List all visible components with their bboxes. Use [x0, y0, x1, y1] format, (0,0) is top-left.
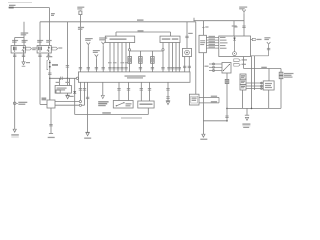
harness connector symbol x=103.2 [101, 42, 105, 46]
box: engine control module (ECM) [78, 72, 190, 82]
connector symbol above x=268.6 [264, 37, 270, 50]
wire: mid connector to ECM [95, 58, 98, 72]
label block under arrow [98, 101, 108, 106]
wire: ECM out x=80.4 to connector circle [79, 82, 82, 100]
wire: fuse box output 6 via junction circle [128, 43, 130, 72]
harness connector symbol x=88.3 [87, 42, 91, 46]
fuse No.13 label [77, 7, 84, 10]
faint label below bus [121, 117, 142, 118]
connector pair on x=50 wire [47, 60, 58, 71]
label above connector pair [46, 56, 52, 57]
wire: relay 2 contact output (x=48.6..50) [48, 53, 50, 60]
wire: fuse box output 4 to ECM [120, 43, 123, 72]
junction dot x=227 on bus [226, 108, 228, 110]
ground arrow x=203.4 [200, 134, 207, 140]
label above connector x=103.2 [99, 37, 107, 40]
box: A/C compressor clutch [263, 81, 274, 90]
wire: drop to A/C box [268, 69, 270, 81]
wire: ECM out x=102.8 to sensor arrow [101, 82, 104, 98]
label: wire color on relay 1 drop [21, 32, 29, 35]
junction: relay2 wire tees into ECM feed line [49, 78, 51, 80]
label box on x=227 wire [225, 79, 229, 83]
T2 output pins to control unit [206, 37, 218, 48]
wire: drops into diode box [60, 78, 70, 85]
wire: ECM ground x=168 [166, 82, 169, 101]
label: wire color on ignition bus [137, 19, 144, 20]
ground arrow bottom-left [11, 129, 18, 137]
box S1: pressure switch [113, 101, 133, 109]
connector ticks on x=67.4 wire [66, 66, 69, 68]
control unit pin labels [220, 37, 228, 49]
wires: ECM to sensor box S2 [140, 82, 152, 101]
bus: right bottom horizontal (y=108.4) [227, 108, 281, 110]
wire: box K bottom to ground [49, 108, 52, 133]
label: wire color below bus [78, 27, 84, 30]
ground arrow under relay 1 [22, 62, 30, 66]
diode box (fan control diode) [55, 86, 71, 94]
wire: A/C box to bus [268, 90, 270, 108]
wire: ECM ground x=87.6 [86, 82, 89, 132]
connector ticks on fuse wire [79, 67, 82, 69]
wire: bus to ground G201 [246, 108, 248, 115]
in-line connector circle on ECM feed [76, 77, 78, 79]
label left of switch [205, 66, 209, 67]
indicator bulb circle [233, 52, 237, 56]
bus: bottom horizontal (y=114.5) [75, 114, 149, 116]
wire: relay 1 output to ground G101 (long, x=14.7) [14, 53, 16, 129]
A/C box text [265, 83, 272, 88]
harness connector symbol x=96.4 [95, 54, 99, 58]
labels above ECM pins (left group) [108, 62, 128, 63]
wire: bus drop x=152.4 [151, 51, 154, 72]
wires: box B outputs to ECM [167, 43, 181, 72]
wire: bottom link from control unit (y=55.8) [251, 46, 269, 56]
wire: ECM out x=84.5 [82, 82, 87, 105]
faint header text top-left [8, 2, 32, 3]
S1 switch symbol + text [116, 102, 132, 106]
box T2: radiator fan timer [199, 35, 206, 52]
label on motor feed [188, 33, 193, 34]
box: relay box top right-middle [160, 36, 180, 42]
T inner text box [191, 96, 198, 103]
wire: battery feed horizontal bus (top left) [9, 5, 50, 9]
wire: right drop x=281 through connector [280, 69, 282, 109]
wire: T2 bottom to ground (x=203.4) [202, 53, 204, 135]
diode symbol on x=74.7 [73, 91, 76, 93]
small box above-right of K [56, 90, 60, 93]
connector stack boxes (left of A/C) [240, 74, 246, 90]
ECM label text [125, 75, 146, 78]
label on jumper bus [138, 30, 144, 31]
connector ticks below relay 1 [13, 55, 25, 57]
relay R1: radiator fan relay box [11, 46, 25, 54]
wire: box K to circle 2 [55, 104, 79, 106]
wire: control unit bottom drop x=243.6 [243, 57, 245, 69]
tag: relay 1 name (right) [26, 47, 37, 50]
wire: fuse box output 3 to ECM [116, 43, 119, 72]
ground bar bottom x=87.6 [84, 132, 91, 139]
wire: second top bus (y=20.7) [194, 18, 245, 21]
wire: fuse box output 1 to ECM [108, 43, 111, 72]
wire: branch to relay 1 contact [15, 38, 24, 46]
wire: tick feed x=234 from top bus [232, 21, 237, 36]
wire: bus drop x=140.4 [139, 51, 142, 72]
wire: fuse box output 2 to ECM [112, 43, 115, 72]
label box left of K [42, 98, 46, 100]
wire: ignition bus drop to motor [185, 22, 188, 49]
connector ticks below relay 2 [38, 55, 50, 57]
wire: feed line down through diode to bottom bus [74, 78, 76, 114]
connector block on wire x=129.5 [128, 57, 132, 64]
ground bottom x=51 [48, 133, 55, 138]
relay R2: condenser fan relay box [37, 46, 51, 54]
footnote mark on x=203.4 [202, 26, 208, 28]
bus: connector bus y=51 [130, 50, 164, 52]
wire: drop to relay 1 coil [23, 22, 25, 46]
wire: relay 1 coil to ground (x=23.5) [23, 53, 25, 62]
wire: bus right end to box B / ECM [161, 43, 164, 72]
wire: vertical drop from top bus to fan relay 2 [49, 8, 51, 46]
diode box inner text [57, 88, 67, 91]
labels right of connector [284, 73, 294, 78]
wire: feed into box K top [49, 78, 51, 100]
box: under-dash fuse/relay box [105, 36, 134, 42]
wire: fuse to ECM (vertical x=80.4) [79, 15, 81, 72]
connector circle 1 [79, 100, 81, 102]
wire: relay 2 output down (x=40) [40, 53, 47, 104]
junction dot at x=67.4 on ECM feed line [67, 78, 69, 80]
label: condenser fan relay wire colors [37, 40, 52, 43]
labels on diode box drops [56, 82, 70, 83]
output tag right of control unit [251, 38, 262, 40]
label above mid connector x=96.4 [93, 50, 100, 53]
wires: stack to A/C box [246, 82, 263, 89]
wire: main ignition bus (horizontal, y=21.8) [40, 21, 196, 23]
ground G201 [242, 115, 250, 128]
box T: coolant temp sensor [189, 94, 199, 105]
indicator diode in control unit [233, 36, 236, 52]
wires: ECM to switch box S1 [117, 82, 130, 100]
connector block on wire x=140.4 [139, 57, 143, 64]
motor box [183, 48, 192, 56]
wire: power feed into control unit [242, 14, 245, 36]
wire: ignition bus end drop (x=195.8) [195, 22, 197, 94]
wire: connector to ECM x=103.2 [102, 46, 105, 72]
label above connector x=88.3 [85, 38, 93, 41]
two-pin connector on x=281 [279, 72, 283, 79]
relay R2 internals [39, 47, 50, 53]
tag arrows right of fan switch [234, 59, 247, 66]
label: wire color WHT (right of drop) [51, 13, 55, 16]
wire: horizontal feed to ECM left pin [50, 77, 77, 79]
label on bottom bus [102, 112, 111, 114]
wire: connector to ECM x=88.3 [87, 46, 90, 72]
fuse No.13 symbol [79, 10, 82, 14]
in-line connector C on left wire [13, 102, 27, 105]
vertical ticks on ECM feed [61, 77, 63, 80]
connector block on wire x=152.4 [151, 57, 155, 64]
label on y=68.5 bus [261, 67, 267, 68]
harness connector symbol x=244 [242, 10, 246, 14]
label: radiator fan relay wire colors [12, 40, 28, 43]
wire continues below connector pair [48, 71, 51, 101]
labels on sensor outputs [211, 96, 217, 103]
wire: S2 to bottom bus [147, 108, 149, 115]
box B label text [162, 38, 179, 40]
S2 inner text [140, 103, 153, 105]
wires+terminals: fan switch inputs [209, 63, 222, 72]
box: A/C control unit [219, 36, 251, 57]
wire: ignition bus left end drop to relay 2 [39, 22, 41, 46]
faint text left of power wire [234, 26, 237, 27]
wire: fuse box output 5 to ECM [124, 43, 127, 72]
bus: horizontal y=68.5 [244, 68, 281, 70]
T2 inner text [200, 40, 205, 45]
T2 pin labels [209, 36, 216, 48]
wire: fan switch to bus (x=227) [225, 73, 228, 121]
ground under x=168 [166, 101, 170, 105]
fuse box label text [110, 38, 127, 40]
stack inner text [241, 75, 245, 88]
jog: horizontal link y=120.8 [203, 120, 227, 122]
wires: sensor outputs right [199, 97, 219, 103]
wires: motor to ECM [183, 57, 191, 72]
wires: control unit drops x=251.5/254.5 [252, 56, 255, 109]
tag: relay 2 name (right) [52, 47, 62, 50]
wire: ignition bus to diode box (vertical x=67.4) [66, 22, 68, 86]
box K: ignition unit [47, 100, 55, 108]
connector circle 2 [79, 104, 81, 106]
motor symbol (circle M) [185, 50, 190, 55]
fan switch symbol [223, 64, 230, 71]
relay R1 internals [13, 47, 24, 54]
wire: box K to circle 1 [55, 101, 79, 103]
ground under diode box [65, 93, 73, 99]
wire: stack bottom to bus [241, 90, 243, 108]
wire: drop to fan timer box (x=203.4) [202, 21, 204, 36]
box: radiator fan switch [222, 63, 231, 74]
wire: jumper bus over fuse box (y=32) [116, 32, 171, 36]
power label top right [239, 7, 247, 10]
box S2: sensor [138, 101, 154, 108]
